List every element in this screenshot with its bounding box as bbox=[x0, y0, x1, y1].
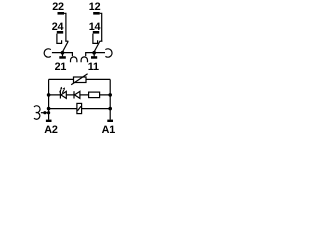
corner wire down left bbox=[71, 52, 73, 56]
varistor diagonal bbox=[71, 74, 87, 85]
terminal bar 21 bbox=[59, 56, 66, 59]
svg-text:12: 12 bbox=[89, 1, 101, 13]
contact lever right bbox=[93, 41, 100, 54]
make contact cup 14 bbox=[93, 34, 98, 44]
terminal bar 11 bbox=[91, 56, 97, 59]
svg-text:11: 11 bbox=[88, 61, 99, 73]
contact lever left bbox=[61, 41, 68, 54]
junction dot bottom left bbox=[47, 107, 51, 111]
socket arc down left bbox=[71, 57, 77, 62]
wire pin from 12 bbox=[100, 13, 102, 41]
varistor row wire bbox=[49, 78, 111, 80]
diode triangle bbox=[75, 91, 80, 98]
stub to 21 bar bbox=[62, 53, 64, 56]
terminal bar A1 bbox=[107, 120, 113, 122]
terminal bar 14 bbox=[93, 31, 99, 34]
wire common row left bbox=[52, 52, 73, 54]
coil socket arcs bbox=[34, 106, 40, 119]
stub to 11 bar bbox=[93, 53, 95, 56]
terminal bar A2 bbox=[46, 120, 52, 122]
svg-text:21: 21 bbox=[55, 61, 67, 73]
corner wire down right bbox=[85, 52, 87, 56]
socket arc left end bbox=[44, 49, 51, 57]
LED arrow 1 bbox=[60, 89, 62, 92]
junction dot row left bbox=[47, 93, 51, 97]
terminal bar 22 bbox=[58, 12, 65, 15]
contact tip crossbar 22 bbox=[65, 40, 68, 42]
resistor bbox=[89, 92, 100, 98]
junction dot bottom right bbox=[108, 107, 112, 111]
bottom row wire bbox=[49, 108, 111, 110]
wire common row right bbox=[86, 52, 105, 54]
wire pin from 22 bbox=[64, 13, 66, 41]
varistor body bbox=[74, 77, 87, 83]
rail junction dot coil bbox=[47, 111, 50, 114]
svg-text:22: 22 bbox=[52, 1, 64, 13]
diode bar bbox=[73, 91, 75, 98]
svg-text:A1: A1 bbox=[102, 124, 116, 136]
coil wire bbox=[41, 112, 49, 114]
svg-text:A2: A2 bbox=[44, 124, 58, 136]
fuse element body bbox=[77, 103, 82, 113]
left rail A2 bbox=[48, 79, 50, 119]
junction dot pivot right bbox=[92, 51, 96, 55]
junction dot row right bbox=[108, 93, 112, 97]
socket arc right end bbox=[105, 49, 112, 57]
terminal bar 12 bbox=[93, 12, 100, 15]
LED cathode bar bbox=[59, 91, 61, 98]
contact tip crossbar 12 bbox=[100, 40, 103, 42]
make contact cup 24 bbox=[57, 34, 62, 44]
junction dot pivot left bbox=[61, 51, 65, 55]
LED triangle bbox=[61, 91, 66, 98]
fuse element diagonal bbox=[78, 106, 82, 111]
terminal bar 24 bbox=[57, 31, 63, 34]
coil junction dot bbox=[43, 111, 46, 114]
socket arc down right bbox=[81, 57, 87, 62]
indicator row wire bbox=[49, 94, 111, 96]
LED arrow 2 bbox=[62, 90, 64, 93]
right rail A1 bbox=[109, 79, 111, 119]
